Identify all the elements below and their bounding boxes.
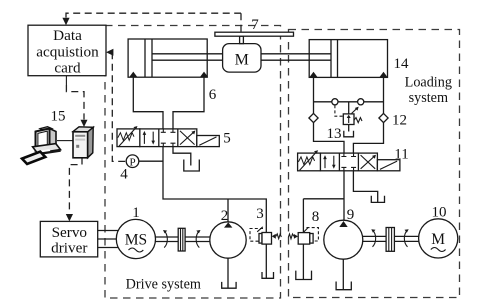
wire: stem from rung to relief valve 13 bbox=[348, 102, 350, 114]
wire: P-line valve 11 to pump 9 bbox=[343, 171, 345, 221]
wire: dashed feedback line from pressure gauge 4 up to card right side bbox=[112, 52, 126, 161]
cylinder 6 port arrows bbox=[129, 72, 137, 78]
wire: right port of cylinder 14 down to valve 11 bbox=[353, 77, 383, 153]
cylinder 6 piston bbox=[145, 39, 152, 77]
tank below valve 5 bbox=[184, 160, 200, 172]
computer 15: monitor bbox=[36, 127, 57, 151]
dashed pilot line for valve 13 bbox=[335, 105, 343, 116]
wire: pump 2 riser bbox=[227, 199, 229, 222]
loading system boundary (dashed box) bbox=[289, 30, 460, 298]
motor 10 bbox=[419, 219, 458, 258]
relief valve 3 bbox=[250, 227, 281, 244]
svg-text:M: M bbox=[431, 231, 445, 248]
tank below valve 11 bbox=[371, 196, 384, 203]
arrowhead into card top bbox=[62, 18, 69, 25]
tank below relief valve 13 bbox=[344, 131, 354, 137]
computer 15: desktop base unit bbox=[33, 144, 61, 156]
computer 15: keyboard bbox=[22, 152, 45, 164]
wire: dashed feedback line from sensor 7 to data acquisition card top bbox=[66, 13, 241, 17]
wires: three phase lines servo driver to motor MS bbox=[98, 231, 120, 248]
svg-text:15: 15 bbox=[51, 109, 66, 125]
servo driver box bbox=[40, 221, 97, 257]
arrowhead into tower top bbox=[81, 120, 88, 127]
data acquisition card box bbox=[28, 25, 106, 75]
arrowhead into servo driver top bbox=[66, 214, 73, 221]
servo valve 5 bbox=[117, 126, 219, 147]
svg-text:14: 14 bbox=[394, 56, 410, 72]
wire: T-line valve 11 to tank bbox=[353, 171, 377, 202]
svg-text:3: 3 bbox=[256, 206, 264, 222]
arrowhead into card right edge bbox=[106, 49, 113, 56]
coupling between pump 9 and motor 10 bbox=[371, 228, 408, 252]
wire: relief valve 13 to tank bbox=[348, 125, 350, 132]
relief valve 8 bbox=[288, 227, 318, 244]
tank below relief valve 8 bbox=[296, 271, 312, 280]
svg-text:7: 7 bbox=[251, 17, 259, 33]
cylinder 6 rod to mass bbox=[152, 54, 223, 60]
cylinder 14 piston bbox=[331, 40, 338, 78]
svg-text:M: M bbox=[235, 52, 249, 69]
svg-text:card: card bbox=[54, 59, 81, 76]
svg-text:Servo: Servo bbox=[52, 224, 88, 241]
svg-text:8: 8 bbox=[312, 209, 320, 225]
svg-text:10: 10 bbox=[432, 205, 447, 221]
mass block M bbox=[223, 44, 261, 73]
svg-text:13: 13 bbox=[327, 126, 342, 142]
svg-text:Data: Data bbox=[53, 27, 82, 44]
shaft pump 9 to motor 10 bbox=[360, 236, 421, 241]
check valve (right circle) bbox=[358, 99, 364, 105]
pump 9 bbox=[324, 220, 363, 259]
computer 15: cable to tower bbox=[57, 140, 73, 142]
wire: solid stub + dashed link card bottom to computer tower bbox=[65, 76, 67, 85]
proportional valve 11 bbox=[298, 150, 400, 171]
cylinder 14 (loading cylinder) body bbox=[309, 40, 387, 78]
svg-text:6: 6 bbox=[209, 87, 217, 103]
svg-text:12: 12 bbox=[392, 113, 407, 129]
wire: relief valve 8 to tank bbox=[302, 244, 304, 279]
shaft MS to pump 2 bbox=[150, 237, 212, 242]
wire: P-line valve 5 to pump 2 and relief valve 3 bbox=[163, 147, 266, 233]
svg-text:P: P bbox=[129, 157, 135, 169]
filter diamond left bbox=[309, 113, 318, 122]
wire: B-line left cylinder right port to valve 5 bbox=[173, 77, 204, 129]
wire: branch to relief valve 8 bbox=[303, 199, 344, 233]
pressure gauge 4 bbox=[126, 155, 139, 168]
tank below pump 2 bbox=[222, 282, 236, 288]
wire: T-line valve 5 to tank bbox=[173, 147, 191, 166]
wire: pump 9 suction to tank bbox=[342, 259, 344, 289]
coupling between MS and pump 2 bbox=[163, 228, 201, 251]
svg-text:Drive system: Drive system bbox=[126, 277, 201, 293]
svg-text:5: 5 bbox=[223, 131, 231, 147]
relief valve 13 bbox=[343, 107, 362, 125]
wire: relief valve 3 to tank bbox=[265, 244, 267, 278]
svg-text:Loading: Loading bbox=[405, 75, 452, 91]
wire: cross rung with check valves bbox=[314, 101, 384, 103]
cylinder 14 rod from mass bbox=[261, 54, 331, 60]
drive system boundary (dashed box) bbox=[105, 26, 281, 299]
svg-text:1: 1 bbox=[132, 205, 140, 221]
cylinder 6 (drive cylinder) body bbox=[128, 39, 207, 77]
check valve (left circle) bbox=[332, 99, 338, 105]
svg-text:system: system bbox=[409, 90, 448, 106]
wire: left port of cylinder 14 down to valve 11 bbox=[314, 77, 345, 153]
computer 15: tower case bbox=[73, 127, 93, 158]
tank below relief valve 3 bbox=[262, 272, 274, 278]
tank below pump 9 bbox=[336, 282, 351, 290]
svg-text:acquistion: acquistion bbox=[36, 43, 99, 60]
svg-text:MS: MS bbox=[125, 232, 147, 249]
wire: A-line left cylinder left port to valve 5 bbox=[133, 77, 163, 129]
wire: pump 2 suction to tank bbox=[227, 258, 229, 288]
sensor 7 bar bbox=[215, 32, 294, 36]
motor MS 1 bbox=[116, 219, 155, 258]
filter diamond 12 (right) bbox=[379, 113, 388, 122]
wire: dashed link tower bottom to servo driver bbox=[69, 158, 82, 214]
pump 2 bbox=[210, 222, 246, 258]
cylinder 14 port arrows bbox=[309, 72, 317, 78]
sensor 7 stem bbox=[240, 36, 244, 43]
wire: gauge 4 tap bbox=[139, 160, 163, 162]
svg-text:driver: driver bbox=[51, 239, 87, 256]
svg-text:4: 4 bbox=[120, 167, 128, 183]
